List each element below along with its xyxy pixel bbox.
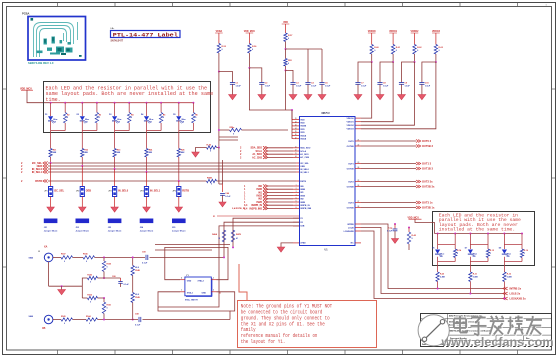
LED D3 with parallel resistor R4 loop — [114, 102, 116, 104]
svg-text:0: 0 — [89, 323, 90, 325]
svg-text:AC_CKB: AC_CKB — [300, 156, 309, 159]
wire VDDO0 junction — [371, 54, 373, 62]
svg-text:R150: R150 — [107, 264, 112, 266]
wire LED pair 4 bottom loop — [146, 121, 148, 131]
LED D5 with parallel resistor R6 loop — [178, 102, 180, 104]
wire net RSTB — [48, 180, 207, 182]
svg-text:0.1uF: 0.1uF — [225, 196, 231, 198]
svg-text:D8: D8 — [149, 121, 151, 123]
svg-text:I2C_SEL: I2C_SEL — [54, 190, 65, 193]
U1 left power pins — [293, 119, 299, 121]
resistor R143 — [103, 277, 105, 279]
svg-text:0: 0 — [457, 253, 458, 255]
svg-text:OUT0B 3: OUT0B 3 — [422, 144, 434, 148]
note annotation leader — [239, 264, 247, 301]
svg-text:X2B: X2B — [300, 226, 305, 228]
capacitor C7 1.0uF — [358, 62, 372, 83]
ground under C2 — [261, 84, 263, 94]
svg-text:LOLB 2x: LOLB 2x — [510, 292, 521, 296]
svg-text:XTAL1: XTAL1 — [187, 292, 194, 295]
svg-text:3: 3 — [213, 278, 214, 280]
svg-text:4: 4 — [181, 277, 182, 280]
svg-text:VDD: VDD — [300, 132, 305, 134]
resistor R148 49.9 — [132, 257, 134, 265]
svg-text:49.9: 49.9 — [135, 266, 139, 269]
svg-text:R47B: R47B — [236, 233, 241, 236]
wire C59 to crystal rail — [150, 256, 225, 258]
junction bus 5 — [178, 180, 180, 182]
frame zone ticks bottom — [57, 351, 59, 355]
svg-text:OUT3: OUT3 — [348, 202, 354, 204]
frame zone ticks top — [57, 3, 59, 7]
svg-text:1.0uF: 1.0uF — [405, 85, 411, 87]
wire U1 X1 to crystal — [233, 218, 299, 247]
svg-text:R-16: R-16 — [524, 250, 528, 252]
wire RSTB to U1 — [217, 180, 297, 182]
svg-text:R-20: R-20 — [440, 274, 444, 276]
wire LED bank 1 top rail — [51, 102, 194, 104]
resistor R-49 with ground — [207, 146, 217, 149]
svg-text:0: 0 — [64, 261, 65, 263]
svg-text:JP1: JP1 — [44, 191, 47, 193]
LED D2 with parallel resistor R3 loop — [81, 102, 83, 104]
ground under C9 — [401, 84, 403, 94]
svg-text:IN3PB_INB: IN3PB_INB — [300, 208, 311, 210]
capacitor C10 1.0uF — [422, 62, 436, 83]
capacitor C3 1.0uF — [285, 66, 287, 70]
wire VDD junction — [285, 42, 287, 50]
svg-text:JP2: JP2 — [76, 191, 79, 193]
svg-text:1: 1 — [181, 290, 182, 292]
resistor R-52 — [218, 33, 220, 44]
svg-text:GND: GND — [187, 281, 192, 283]
svg-text:0: 0 — [195, 117, 196, 119]
svg-text:time.: time. — [46, 97, 61, 103]
svg-text:Jumper Shunt: Jumper Shunt — [108, 230, 122, 233]
LED D1 — [48, 116, 53, 120]
capacitor C2 1.0uF — [249, 68, 261, 83]
connector XB SMA — [44, 315, 53, 324]
junction bus 4 — [146, 171, 148, 173]
ground under C7 — [357, 84, 359, 94]
svg-text:VDDO3: VDDO3 — [347, 129, 355, 131]
svg-text:22: 22 — [358, 145, 360, 147]
wire INTRB to bottom right — [361, 224, 503, 289]
resistor R21 48K pulldown — [50, 133, 52, 149]
svg-text:D8: D8 — [507, 256, 509, 258]
svg-text:D1: D1 — [45, 114, 47, 116]
svg-text:12: 12 — [295, 150, 297, 152]
capacitor C58 0.1uF — [138, 317, 140, 322]
resistor R151 — [103, 297, 105, 299]
title block dividers — [495, 335, 497, 346]
resistor R23 48K pulldown — [114, 133, 116, 149]
svg-text:R25: R25 — [181, 150, 184, 152]
svg-text:R149: R149 — [135, 296, 140, 299]
svg-text:32: 32 — [295, 121, 297, 123]
svg-text:0: 0 — [99, 117, 100, 119]
wire XA ground rail — [48, 262, 50, 287]
resistor R-20 2.49K — [437, 266, 439, 273]
LED D7 with parallel resistor loop — [469, 233, 471, 235]
svg-text:0: 0 — [86, 261, 87, 263]
capacitor C9 1.0uF — [402, 62, 415, 83]
svg-text:D8: D8 — [440, 256, 442, 258]
wire VDDA rail down to R-49 — [218, 72, 220, 148]
svg-text:VDDO1: VDDO1 — [347, 122, 355, 124]
svg-text:0: 0 — [90, 281, 91, 283]
svg-text:VDDO1: VDDO1 — [389, 31, 398, 33]
svg-text:LOSXAXB 2x: LOSXAXB 2x — [510, 297, 527, 301]
resistor R-63 — [435, 33, 437, 45]
LED D4 — [144, 116, 149, 120]
svg-text:R147: R147 — [61, 253, 66, 256]
capacitor C60 0.1uF — [120, 278, 122, 282]
wire net IN_SEL0 — [48, 168, 296, 170]
wire pair 6 bottom loop — [437, 257, 439, 262]
resistor R3 — [95, 113, 98, 124]
capacitor C5 1.0uF — [321, 49, 323, 83]
svg-text:INTRB 2x: INTRB 2x — [510, 287, 522, 291]
wire mid node to C60 — [104, 277, 121, 279]
jumper shunt J53 — [108, 219, 122, 224]
svg-text:R146: R146 — [83, 253, 88, 256]
svg-text:2.49K: 2.49K — [507, 276, 513, 279]
svg-text:VDDA: VDDA — [300, 138, 306, 141]
wire VDDO3 junction — [435, 54, 437, 62]
capacitor C59 0.1uF — [145, 255, 147, 260]
resistor R146 — [83, 256, 95, 259]
ground below JP1 — [50, 197, 52, 208]
svg-text:Jumper Shunt: Jumper Shunt — [140, 230, 154, 233]
svg-text:25: 25 — [358, 180, 360, 182]
title block row lines — [420, 318, 552, 320]
LED bank 1 enclosure box — [44, 82, 211, 133]
svg-text:XA: XA — [44, 245, 48, 248]
svg-text:D5: D5 — [173, 114, 175, 116]
resistor R2 — [64, 113, 67, 124]
wire U1 X2B down — [158, 226, 299, 307]
svg-text:0.1uF: 0.1uF — [142, 263, 148, 265]
ground below JP5 — [178, 197, 180, 208]
op IC U1 body — [300, 117, 356, 246]
svg-text:XB: XB — [42, 327, 46, 330]
ground under C1 — [232, 84, 234, 94]
wire VDDO2 to U1 pin — [361, 62, 415, 125]
svg-text:OUT3 1x: OUT3 1x — [422, 200, 433, 204]
svg-text:OUT3B: OUT3B — [347, 207, 355, 209]
wire VDDO2 junction — [414, 54, 416, 62]
svg-text:IN_SEL1: IN_SEL1 — [150, 190, 161, 193]
svg-text:0.1uF: 0.1uF — [387, 230, 393, 232]
wire pair 7 bottom loop — [469, 257, 471, 262]
svg-text:11: 11 — [295, 147, 297, 149]
svg-text:VDDA: VDDA — [216, 30, 223, 33]
svg-text:D8: D8 — [499, 248, 501, 250]
svg-text:OUT2: OUT2 — [348, 181, 354, 183]
svg-text:0: 0 — [524, 253, 525, 255]
U1 input pins with net labels — [293, 185, 299, 187]
svg-text:OUT0 3: OUT0 3 — [422, 139, 432, 143]
svg-text:0.1uF: 0.1uF — [124, 284, 130, 286]
svg-text:IN3PB_IN: IN3PB_IN — [300, 205, 310, 207]
svg-text:SMA: SMA — [29, 257, 34, 260]
svg-text:AC_CKB: AC_CKB — [252, 156, 262, 159]
svg-text:VDDO0: VDDO0 — [368, 31, 377, 33]
svg-text:OUT0: OUT0 — [348, 141, 354, 143]
svg-text:49.9: 49.9 — [135, 293, 139, 296]
resistor R22 48K pulldown — [81, 133, 83, 149]
wire C58 to crystal — [143, 319, 231, 321]
svg-text:1.0uF: 1.0uF — [265, 85, 271, 87]
crystal pin stubs — [180, 279, 185, 281]
svg-text:XTAL2: XTAL2 — [198, 280, 205, 283]
svg-text:PTL-14-477 Label: PTL-14-477 Label — [113, 33, 179, 39]
capacitor C40 0.1uF near U1 — [394, 223, 396, 225]
resistor R150 — [103, 257, 105, 261]
svg-text:LOSXAXB: LOSXAXB — [344, 230, 355, 233]
resistor R152 — [81, 286, 83, 298]
wire VDD to U1 — [285, 70, 287, 110]
ferrite FB1 — [284, 59, 287, 67]
svg-text:1.0uF: 1.0uF — [296, 85, 302, 87]
wire XA to R147 — [53, 256, 61, 258]
wire VDD_MCU to LED rail — [27, 90, 51, 103]
svg-text:2: 2 — [213, 290, 214, 292]
jumper shunt J52 — [76, 219, 90, 224]
svg-text:VDD: VDD — [300, 129, 305, 131]
svg-text:VDDA: VDDA — [300, 134, 306, 137]
wire crystal rails join — [155, 244, 230, 246]
svg-text:D8: D8 — [53, 121, 55, 123]
ground under C3 — [292, 84, 294, 94]
frame zone ticks sides — [3, 88, 7, 90]
svg-text:R40B: R40B — [207, 177, 212, 180]
ground below JP4 — [146, 197, 148, 208]
svg-text:VDD: VDD — [300, 119, 305, 121]
resistor R-15 — [487, 245, 489, 250]
svg-text:IN1B: IN1B — [300, 195, 305, 197]
ground under C4 — [307, 84, 309, 94]
svg-text:36: 36 — [295, 134, 297, 136]
svg-text:0: 0 — [490, 253, 491, 255]
svg-text:IN3PB_INB: IN3PB_INB — [250, 207, 263, 210]
svg-text:VDDO3: VDDO3 — [432, 31, 441, 33]
svg-text:0: 0 — [131, 117, 132, 119]
svg-text:1.0uF: 1.0uF — [236, 85, 242, 87]
wire LOSXAXB to bottom right — [361, 231, 503, 299]
ground under C40 — [394, 231, 396, 239]
svg-text:RSTB: RSTB — [300, 181, 306, 183]
svg-text:A1_SDO: A1_SDO — [300, 153, 309, 156]
LED D8 with parallel resistor loop — [503, 233, 505, 235]
svg-text:PCBA: PCBA — [22, 12, 29, 16]
svg-text:27: 27 — [358, 201, 360, 203]
svg-text:www.elecfans.com: www.elecfans.com — [440, 335, 553, 349]
resistor R25 48K pulldown — [178, 133, 180, 149]
svg-text:0: 0 — [163, 117, 164, 119]
svg-text:35: 35 — [295, 131, 297, 133]
svg-text:1.0uF: 1.0uF — [425, 85, 431, 87]
wire VDDO1 to U1 pin — [361, 62, 393, 122]
resistor R-61 — [392, 33, 394, 45]
svg-text:IN_SEL1: IN_SEL1 — [32, 171, 43, 174]
svg-text:SCLA: SCLA — [300, 150, 306, 153]
svg-text:31: 31 — [295, 118, 297, 120]
wire VDD_MCU down — [248, 53, 250, 68]
wire VDDO3 to U1 pin — [361, 62, 436, 129]
connector XA SMA — [44, 253, 53, 262]
wire LED pair 3 bottom loop — [114, 121, 116, 131]
ground below JP2 — [81, 197, 83, 208]
capacitor C46 0.1uF — [222, 184, 224, 192]
LED D2 — [80, 116, 85, 120]
LED D8 — [503, 245, 505, 250]
U1 serial pins with net labels — [293, 147, 299, 149]
jumper JP5 RSTB — [178, 181, 180, 187]
svg-text:VDDO2: VDDO2 — [411, 31, 420, 33]
junction bus 3 — [114, 168, 116, 170]
ground at R-49 — [192, 152, 199, 157]
svg-text:IN_SEL0: IN_SEL0 — [118, 190, 129, 193]
svg-text:J2: J2 — [38, 251, 40, 253]
svg-text:IN_SEL0: IN_SEL0 — [300, 169, 309, 171]
wire net OEB — [48, 165, 296, 167]
svg-text:R151: R151 — [107, 305, 112, 307]
wire VDD_MCU to U1 power pins — [249, 68, 292, 120]
svg-text:R143: R143 — [87, 273, 92, 276]
svg-text:D2: D2 — [77, 114, 79, 116]
svg-text:D3: D3 — [109, 114, 111, 116]
svg-text:the layout for Y1.: the layout for Y1. — [241, 339, 285, 345]
svg-text:D8: D8 — [473, 256, 475, 258]
ground under C46 — [222, 195, 224, 202]
LED D3 — [112, 116, 117, 120]
wire R145 R144 — [73, 319, 86, 321]
svg-text:SMA: SMA — [29, 315, 34, 318]
svg-text:1.0uF: 1.0uF — [383, 85, 389, 87]
wire U1 X2 to crystal — [224, 222, 299, 257]
svg-text:IN0B: IN0B — [300, 189, 305, 191]
svg-text:SN74LB477: SN74LB477 — [111, 40, 124, 43]
wire VDDO1 junction — [392, 54, 394, 62]
svg-text:OEB: OEB — [86, 190, 92, 193]
svg-text:0: 0 — [107, 267, 108, 269]
crystal Y1 body — [185, 277, 211, 296]
svg-text:28: 28 — [358, 206, 360, 208]
capacitor C8 1.0uF — [380, 62, 393, 83]
wire LED bank 2 top rail — [435, 233, 523, 235]
svg-text:33: 33 — [295, 125, 297, 127]
LED D6 with parallel resistor loop — [437, 233, 439, 235]
svg-text:OUT1 3: OUT1 3 — [422, 161, 432, 165]
svg-text:R21: R21 — [53, 150, 56, 152]
svg-text:OUT2B: OUT2B — [347, 186, 355, 188]
svg-text:21: 21 — [358, 140, 360, 142]
U1 status pins INTRB LOLB LOSXAXB — [355, 223, 361, 225]
U1 output pins and net arrows — [355, 140, 361, 142]
jumper JP2 OEB — [81, 166, 83, 187]
resistor R46A — [222, 230, 225, 242]
resistor R40B on RSTB line — [207, 179, 217, 182]
svg-text:R148: R148 — [135, 269, 140, 272]
jumper JP3 IN_SEL0 — [114, 169, 116, 187]
svg-text:IN2B: IN2B — [300, 202, 305, 204]
LED D4 with parallel resistor R5 loop — [146, 102, 148, 104]
svg-text:R-21: R-21 — [473, 274, 477, 276]
svg-text:Jumper Shunt: Jumper Shunt — [44, 230, 58, 233]
svg-text:R6: R6 — [195, 115, 197, 117]
ground under C8 — [379, 84, 381, 94]
resistor R-42 — [408, 227, 410, 229]
wire LED pair 2 bottom loop — [81, 121, 83, 131]
svg-text:RSTB: RSTB — [35, 180, 42, 183]
svg-text:VDDO0: VDDO0 — [347, 118, 355, 120]
svg-text:NC: NC — [351, 243, 355, 245]
svg-text:same layout pads. Both are ne: same layout pads. Both are never install… — [46, 91, 214, 97]
svg-text:MB75U: MB75U — [322, 112, 330, 115]
svg-text:VDDO2: VDDO2 — [347, 125, 355, 127]
svg-text:VDD: VDD — [300, 123, 305, 125]
U1 NC pin — [355, 242, 361, 244]
PCB photo artwork — [34, 22, 78, 57]
wire pair 8 bottom loop — [503, 257, 505, 262]
resistor R149 49.9 — [131, 293, 134, 303]
resistor R-60 — [371, 33, 373, 45]
svg-text:0: 0 — [67, 117, 68, 119]
resistor R-21 2.49K — [469, 266, 471, 273]
resistor R-57 — [285, 24, 287, 33]
svg-text:R-22: R-22 — [507, 274, 511, 276]
svg-text:ePAD: ePAD — [300, 242, 306, 245]
svg-text:SBDY4-DB REV 1.0: SBDY4-DB REV 1.0 — [28, 61, 54, 65]
note box border — [238, 301, 377, 348]
U1 crystal pins X1 X2 — [293, 217, 299, 219]
svg-text:INTRB: INTRB — [347, 224, 354, 226]
watermark chinese characters — [455, 316, 468, 333]
LED D1 with parallel resistor R2 loop — [50, 102, 52, 104]
capacitor C1 1.0uF — [219, 72, 233, 83]
jumper shunt J54 — [140, 219, 154, 224]
wire LED pair 1 bottom loop — [50, 121, 52, 131]
svg-text:R-15: R-15 — [490, 250, 494, 252]
svg-text:GND: GND — [202, 293, 207, 295]
U1 ePAD pin and ground — [293, 242, 299, 244]
junction bus 2 — [81, 165, 83, 167]
svg-text:JP5: JP5 — [172, 191, 175, 193]
wire net I2C_SEL — [48, 162, 296, 164]
resistor R-56 — [248, 33, 250, 44]
wire XB to R145 — [53, 319, 61, 321]
net label LOLB 2x — [503, 292, 508, 295]
svg-text:2.49K: 2.49K — [473, 276, 479, 279]
wire VDD horizontal spur — [286, 48, 323, 50]
svg-text:VDD: VDD — [283, 22, 288, 24]
svg-text:0: 0 — [64, 323, 65, 325]
resistor R6 — [192, 113, 195, 124]
svg-text:0: 0 — [107, 308, 108, 310]
net label LOSXAXB 2x — [503, 297, 508, 300]
resistor R47B — [231, 230, 234, 242]
svg-text:OUT0B: OUT0B — [347, 146, 355, 148]
svg-text:D8: D8 — [182, 121, 184, 123]
svg-text:D8: D8 — [85, 121, 87, 123]
wire VDDA down — [218, 53, 220, 72]
svg-text:VDD_MCU: VDD_MCU — [244, 31, 256, 33]
wire VDDA vertical lower — [218, 148, 220, 185]
svg-text:OEB: OEB — [300, 166, 305, 168]
svg-text:RSTB: RSTB — [182, 190, 189, 193]
